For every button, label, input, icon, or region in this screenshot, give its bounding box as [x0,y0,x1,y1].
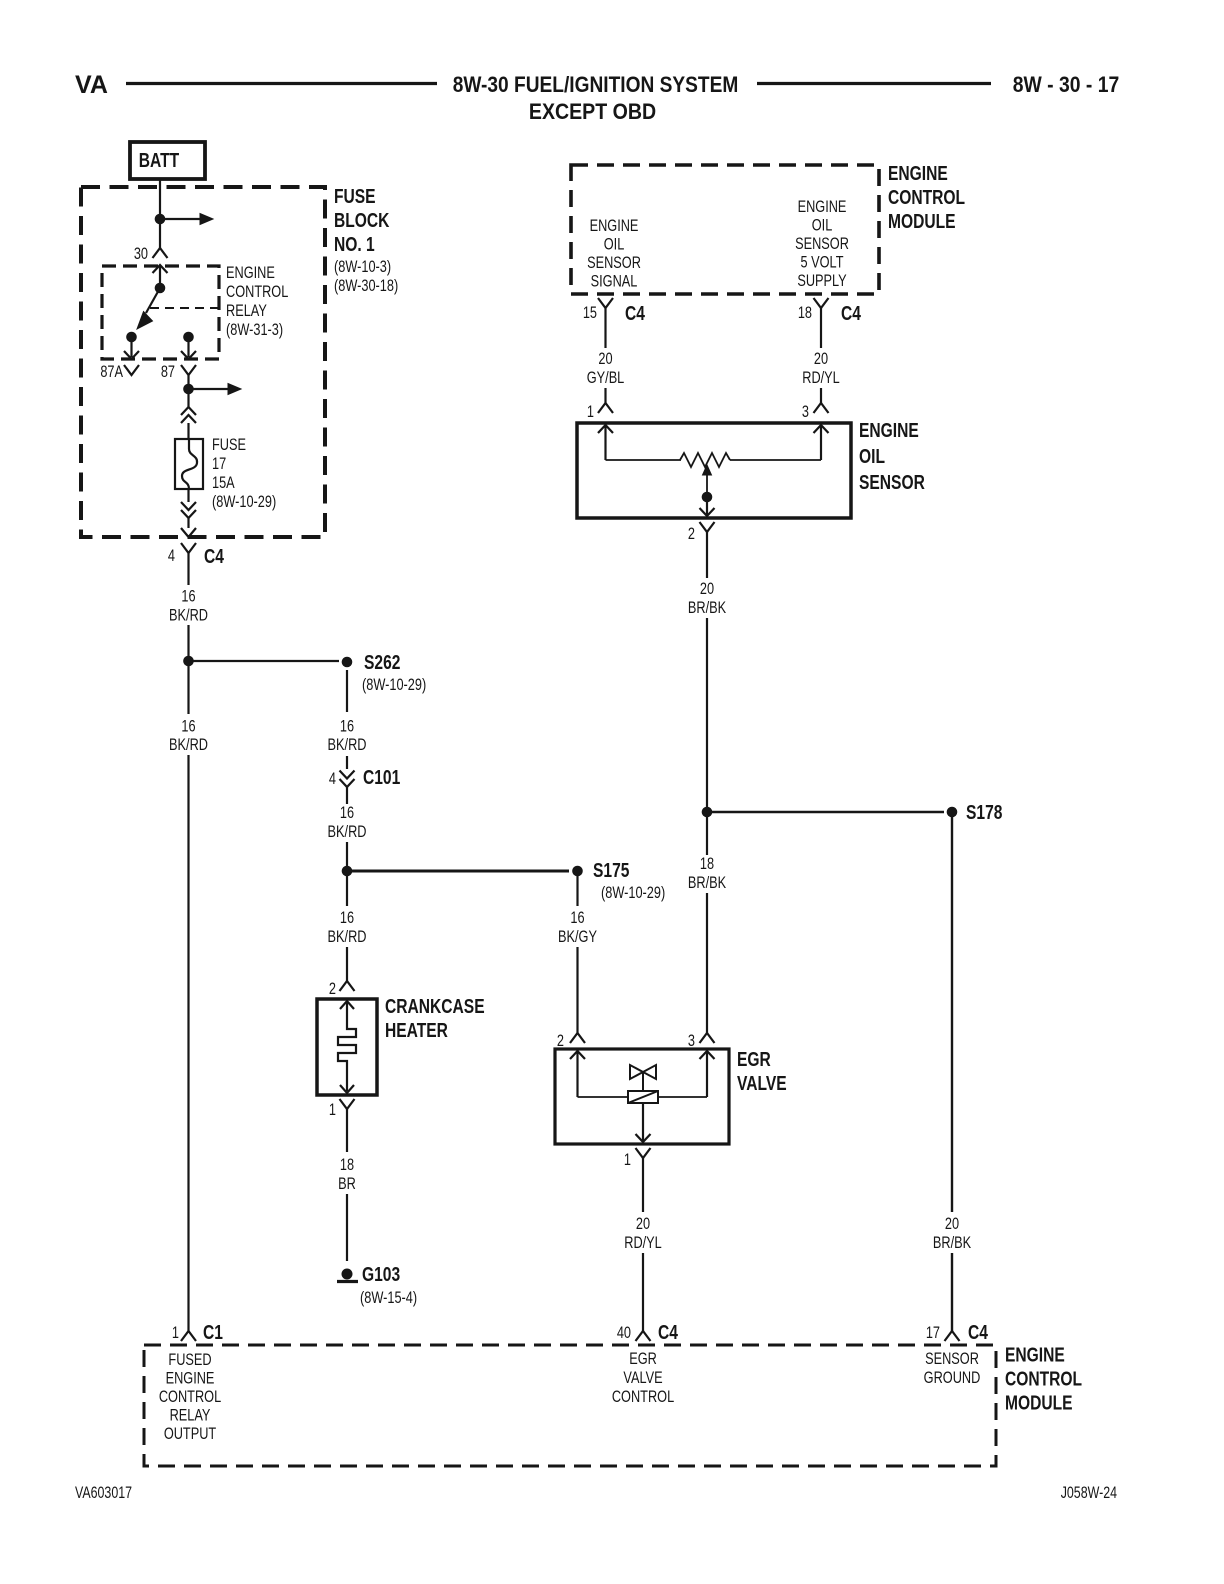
svg-text:EXCEPT OBD: EXCEPT OBD [529,100,656,124]
svg-text:20: 20 [636,1214,650,1233]
svg-text:FUSED: FUSED [168,1350,211,1369]
svg-text:BATT: BATT [139,149,179,171]
svg-text:BK/RD: BK/RD [328,927,367,946]
splice node junction at S262 tap [183,656,194,667]
sensor wiper arrow [703,465,712,475]
connector fork heater pin 1 [340,1099,355,1109]
svg-text:15A: 15A [212,473,235,492]
fuse 17 15A body [175,439,203,489]
svg-text:C101: C101 [363,766,400,788]
connector fork pin 30 [153,248,168,258]
svg-text:C4: C4 [968,1321,988,1343]
wire 20 RD/YL upper [820,318,822,348]
engine control module label bottom [1005,1344,1082,1414]
svg-text:RELAY: RELAY [226,301,267,320]
net label ENGINE OIL SENSOR SIGNAL [587,216,641,291]
svg-text:SIGNAL: SIGNAL [591,272,638,291]
splice S175 [572,859,665,902]
crankcase heater label [385,995,485,1041]
relay contact node 87 [183,332,194,343]
svg-text:40: 40 [617,1323,631,1342]
svg-text:18: 18 [798,303,812,322]
svg-text:(8W-10-29): (8W-10-29) [212,492,276,511]
fuse block no.1 dashed box [81,187,325,537]
svg-text:VA603017: VA603017 [75,1484,132,1502]
EGR pin 2 arrow into box [570,1051,585,1059]
engine control relay dashed box [102,266,219,359]
net label FUSED ENGINE CONTROL RELAY OUTPUT [159,1350,221,1443]
wire branch arrow to other circuits [160,218,201,220]
engine oil sensor label [859,419,925,493]
connector fork pin 87 [181,365,196,375]
battery B+ terminal BATT [130,142,205,179]
svg-text:2: 2 [329,979,336,998]
svg-text:BLOCK: BLOCK [334,209,389,231]
wire gauge label 20 GY/BL [587,349,625,387]
EGR pin 3 arrow into box [700,1051,715,1059]
wire 16 BK/RD to splice S262 [187,625,189,661]
wire gauge label 16 BK/RD to heater [328,908,367,946]
wire 16 BK/GY upper [576,876,578,906]
svg-text:BR/BK: BR/BK [688,598,726,617]
svg-text:SENSOR: SENSOR [587,253,641,272]
wire C101 to splice S175 upper [346,798,348,804]
relay actuator dashed line [150,307,219,309]
wire gauge label 20 RD/YL [802,349,840,387]
header mark VA [75,71,108,99]
wire 18 BR upper [346,1117,348,1152]
sensor pin 1 arrow into box [598,425,613,433]
sensor resistor element [606,459,682,461]
svg-text:FUSE: FUSE [212,435,246,454]
wire 20 RD/YL lower [820,388,822,403]
wire gauge label 16 BK/RD branch [328,717,367,755]
heater pin 1 arrow out of box [346,1062,348,1091]
EGR coil supply wires [578,1096,629,1098]
svg-text:HEATER: HEATER [385,1019,448,1041]
svg-text:CONTROL: CONTROL [226,282,288,301]
svg-text:EGR: EGR [737,1048,771,1070]
wire S262 to C101 upper [346,670,348,712]
connector fork sensor pin 1 [598,403,613,413]
svg-text:S178: S178 [966,801,1002,823]
wire BATT to fuse block [159,179,161,216]
svg-text:5 VOLT: 5 VOLT [801,253,844,272]
node fused feed junction [187,383,189,389]
wire gauge label 16 BK/GY [558,908,597,946]
svg-text:16: 16 [340,803,354,822]
svg-text:MODULE: MODULE [888,210,956,232]
svg-text:20: 20 [598,349,612,368]
svg-text:15: 15 [583,303,597,322]
svg-text:16: 16 [340,717,354,736]
net label ENGINE OIL SENSOR 5 VOLT SUPPLY [795,197,849,290]
svg-text:C4: C4 [841,302,861,324]
wire splice S175 link [347,870,569,873]
splice S262 [342,651,427,694]
svg-text:SUPPLY: SUPPLY [797,271,846,290]
connector C1 cavity 1 fork [181,1331,196,1341]
sensor wiper node [702,492,713,503]
svg-text:8W-30 FUEL/IGNITION SYSTEM: 8W-30 FUEL/IGNITION SYSTEM [453,73,739,98]
svg-text:SENSOR: SENSOR [859,471,925,493]
wire splice branch to S262 [189,660,340,662]
svg-text:RELAY: RELAY [170,1406,211,1425]
wire fuse to connector C4 [187,518,189,528]
connector C4 cavity 17 fork [945,1331,960,1341]
wire 16 BK/RD upper segment [187,565,189,585]
wire gauge label 16 BK/RD lower [169,717,208,755]
engine control module label top [888,162,965,232]
svg-text:CONTROL: CONTROL [159,1387,221,1406]
wire 20 BR/BK to ECM pin 17 [951,1253,953,1331]
svg-text:OIL: OIL [604,235,625,254]
svg-text:ENGINE: ENGINE [166,1369,215,1388]
svg-text:S262: S262 [364,651,400,673]
svg-text:BK/RD: BK/RD [169,735,208,754]
net label EGR VALVE CONTROL [612,1349,674,1406]
svg-text:CRANKCASE: CRANKCASE [385,995,485,1017]
connector fork pin 87A [124,365,139,375]
svg-text:BK/RD: BK/RD [169,606,208,625]
svg-text:1: 1 [172,1323,179,1342]
svg-text:(8W-30-18): (8W-30-18) [334,276,398,295]
svg-text:S175: S175 [593,859,629,881]
svg-text:20: 20 [814,349,828,368]
svg-text:17: 17 [926,1323,940,1342]
svg-text:BR: BR [338,1174,356,1193]
svg-text:87A: 87A [100,362,123,381]
engine control module dashed box top [571,165,879,294]
EGR solenoid coil [628,1091,658,1103]
wire 18 BR to ground [346,1194,348,1261]
heater pin 2 arrow into box [340,1001,354,1009]
svg-text:1: 1 [329,1100,336,1119]
header rule right [757,82,991,85]
heater element R1 [338,1023,356,1062]
connector fork sensor pin 2 [700,522,715,532]
svg-text:RD/YL: RD/YL [624,1233,662,1252]
svg-text:C1: C1 [203,1321,223,1343]
svg-text:(8W-15-4): (8W-15-4) [360,1288,417,1307]
svg-text:16: 16 [340,908,354,927]
relay contact node 87A [126,332,137,343]
connector fork EGR pin 1 [636,1148,651,1158]
wire S175 to crankcase heater upper [346,871,348,906]
svg-text:OUTPUT: OUTPUT [164,1424,216,1443]
connector C4 cavity 18 fork [814,298,829,308]
relay pin 87 arrow out [187,337,189,357]
connector C4 cavity 15 fork [598,298,613,308]
svg-text:(8W-31-3): (8W-31-3) [226,320,283,339]
svg-text:BK/GY: BK/GY [558,927,597,946]
svg-text:ENGINE: ENGINE [859,419,919,441]
svg-text:1: 1 [587,402,594,421]
svg-text:1: 1 [624,1150,631,1169]
svg-text:VALVE: VALVE [623,1368,662,1387]
svg-text:G103: G103 [362,1263,400,1285]
net label SENSOR GROUND [924,1349,981,1387]
engine control module dashed box bottom [144,1345,996,1466]
svg-text:C4: C4 [658,1321,678,1343]
svg-text:EGR: EGR [629,1349,657,1368]
connector fork EGR pin 3 [700,1033,715,1043]
svg-text:CONTROL: CONTROL [1005,1368,1082,1390]
wire junction down to relay pin 30 [159,219,161,248]
crankcase heater box [317,999,377,1095]
svg-text:BK/RD: BK/RD [328,735,367,754]
engine oil sensor box [577,423,851,518]
svg-text:VALVE: VALVE [737,1072,787,1094]
svg-text:CONTROL: CONTROL [888,186,965,208]
svg-text:16: 16 [181,587,195,606]
fuse block label FUSE BLOCK NO. 1 [334,185,398,295]
svg-text:18: 18 [700,854,714,873]
svg-text:BR/BK: BR/BK [688,873,726,892]
svg-text:16: 16 [181,717,195,736]
wire 20 BR/BK to splice S178 [706,618,708,812]
svg-text:OIL: OIL [812,216,833,235]
svg-text:30: 30 [134,244,148,263]
svg-text:C4: C4 [204,545,224,567]
svg-text:ENGINE: ENGINE [590,216,639,235]
svg-text:BR/BK: BR/BK [933,1233,971,1252]
svg-text:18: 18 [340,1155,354,1174]
wire 20 GY/BL lower [604,388,606,403]
wire 20 RD/YL control upper [642,1167,644,1212]
wire 20 RD/YL to ECM pin 40 [642,1253,644,1331]
wire gauge label 20 BR/BK ground [933,1214,971,1252]
svg-text:ENGINE: ENGINE [798,197,847,216]
wire 20 BR/BK ground upper [951,817,953,1212]
splice node S175 left junction [342,866,353,877]
svg-text:C4: C4 [625,302,645,324]
in-line connector C101 [340,771,355,799]
wire 18 BR/BK to EGR valve [706,893,708,1033]
relay pin 30 arrow into box [153,265,168,273]
svg-text:8W - 30 - 17: 8W - 30 - 17 [1013,73,1120,97]
fuse clip connector upper [181,407,196,415]
relay pin 87A arrow out [130,337,132,357]
svg-text:FUSE: FUSE [334,185,376,207]
wire gauge label 18 BR [338,1155,356,1193]
wire 16 BK/RD long run to C1 [187,755,189,1331]
svg-text:20: 20 [945,1214,959,1233]
svg-text:SENSOR: SENSOR [925,1349,979,1368]
svg-text:ENGINE: ENGINE [888,162,948,184]
relay label ENGINE CONTROL RELAY (8W-31-3) [226,263,288,339]
connector C4 cavity 4 fork [181,543,196,553]
connector C4 cavity 40 fork [636,1331,651,1341]
wire branch arrow from 87 [189,388,230,390]
wire 16 BK/RD below splice segment [187,661,189,714]
svg-text:87: 87 [161,362,175,381]
wire gauge label 16 BK/RD [169,587,208,625]
fuse clip connector lower [187,489,189,502]
EGR pin 1 arrow out of box [642,1103,644,1141]
wire gauge label 20 BR/BK [688,579,726,617]
connector fork heater pin 2 [340,981,355,991]
wire 16 BK/GY to EGR valve [576,947,578,1033]
svg-text:3: 3 [802,402,809,421]
svg-text:2: 2 [688,524,695,543]
svg-text:ENGINE: ENGINE [1005,1344,1065,1366]
splice S178 [947,801,1003,823]
svg-text:SENSOR: SENSOR [795,234,849,253]
EGR valve box [555,1049,729,1144]
svg-text:GY/BL: GY/BL [587,368,625,387]
relay movable contact arm [146,288,160,313]
svg-text:VA: VA [75,71,108,99]
node battery feed junction [155,214,166,225]
connector fork EGR pin 2 [570,1033,585,1043]
ground G103 [337,1263,417,1307]
wire splice S178 link [707,811,944,813]
splice node S178 junction [702,807,713,818]
wire gauge label 18 BR/BK [688,854,726,892]
wire 18 BR/BK upper [706,812,708,855]
wire gauge label 20 RD/YL control [624,1214,662,1252]
EGR valve label [737,1048,787,1094]
header rule left [126,82,437,85]
svg-text:4: 4 [168,546,175,565]
svg-text:16: 16 [570,908,584,927]
svg-text:MODULE: MODULE [1005,1392,1073,1414]
svg-text:RD/YL: RD/YL [802,368,840,387]
wire gauge label 16 BK/RD below C101 [328,803,367,841]
wire 20 BR/BK upper [706,542,708,578]
svg-text:J058W-24: J058W-24 [1061,1484,1117,1502]
svg-text:NO. 1: NO. 1 [334,233,375,255]
svg-text:20: 20 [700,579,714,598]
connector fork sensor pin 3 [814,403,829,413]
svg-text:OIL: OIL [859,445,885,467]
wire 20 GY/BL upper [604,318,606,348]
sensor pin 3 arrow into box [814,425,829,433]
svg-text:(8W-10-3): (8W-10-3) [334,257,391,276]
svg-text:ENGINE: ENGINE [226,263,275,282]
wire 87 to fuse 17 [187,389,189,407]
relay common pivot node [155,283,166,294]
svg-text:(8W-10-29): (8W-10-29) [362,675,426,694]
fuse label FUSE 17 15A (8W-10-29) [212,435,276,511]
svg-text:CONTROL: CONTROL [612,1387,674,1406]
svg-text:(8W-10-29): (8W-10-29) [601,883,665,902]
svg-text:17: 17 [212,454,226,473]
svg-text:GROUND: GROUND [924,1368,981,1387]
svg-text:4: 4 [329,769,336,788]
sensor pin 2 arrow out of box [706,497,708,516]
EGR valve symbol [630,1065,656,1079]
svg-text:BK/RD: BK/RD [328,822,367,841]
